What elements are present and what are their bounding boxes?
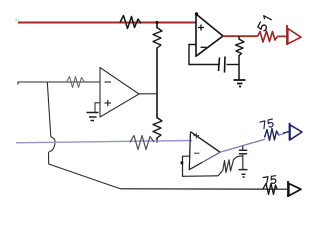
wire: U2 output <box>139 93 157 95</box>
wire: blue bus <box>16 141 192 143</box>
U3 minus mark <box>194 152 200 154</box>
U3 top edge dark <box>191 132 221 152</box>
capacitor C1 <box>219 57 226 73</box>
op-amp U3 <box>189 132 220 170</box>
U2 plus mark <box>105 100 112 106</box>
label 51 <box>258 16 272 32</box>
wire: left branch down <box>47 82 51 137</box>
port arrow P1 <box>286 25 288 45</box>
wire: hop over blue bus <box>49 137 56 153</box>
wire: U1 feedback right <box>227 64 240 66</box>
resistor R2 <box>153 28 162 49</box>
wire: U1 feedback left <box>189 45 219 65</box>
resistor R4 <box>258 31 278 42</box>
wire: top red bus <box>18 22 196 24</box>
ground GND3 <box>239 170 248 177</box>
resistor R3 <box>236 39 245 56</box>
U3 plus mark <box>193 133 199 139</box>
resistor R6 <box>67 77 85 88</box>
artifact dot <box>15 19 19 21</box>
capacitor C2 <box>242 146 244 150</box>
resistor R9 <box>265 129 279 141</box>
wire: red output of U1 <box>223 35 288 37</box>
resistor R8 <box>218 156 242 176</box>
wire: U2 plus to ground <box>95 103 100 112</box>
port arrow P2 <box>289 123 291 141</box>
U2 minus mark <box>105 81 112 83</box>
wire: U3 output diagonal <box>220 133 285 152</box>
port arrow P3 <box>287 181 289 197</box>
resistor R5 <box>153 118 162 139</box>
wire: U3 feedback <box>183 156 219 176</box>
ground GND2 <box>87 113 99 121</box>
node A junction <box>155 21 158 24</box>
ground GND1 <box>234 80 246 87</box>
resistor R7 <box>130 136 154 150</box>
op-amp U2 <box>100 68 139 118</box>
label 75 bottom <box>263 176 277 185</box>
op-amp U1 <box>196 14 223 56</box>
U1 minus mark <box>201 46 207 48</box>
wire: output drop to ground <box>238 36 240 79</box>
U1 plus mark <box>198 25 204 31</box>
U3 left edge dark <box>189 134 202 170</box>
resistor R10 <box>263 184 277 195</box>
resistor R1 <box>120 16 141 29</box>
wire: left input <box>18 82 100 85</box>
wire: vertical divider x157 <box>156 23 158 143</box>
wire: stub into P2 <box>283 132 289 134</box>
wire: diagonal to bottom bus <box>49 152 122 189</box>
blob on U3 bracket <box>181 161 184 164</box>
label 75 blue <box>260 119 274 129</box>
wire: bottom bus <box>121 188 287 190</box>
